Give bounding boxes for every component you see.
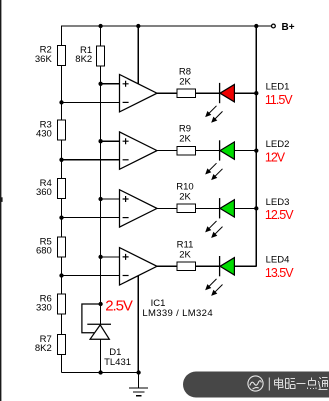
svg-text:36K: 36K [35, 54, 53, 65]
LED D1 LED1 [206, 83, 234, 122]
resistor R9 [177, 124, 196, 155]
wire: comparator V+ supply drop [137, 26, 139, 84]
wire: right B+ rail vertical [255, 26, 257, 266]
junction node (256,26) [254, 24, 258, 28]
resistor R5 [36, 236, 66, 257]
op-amp U1b comparator 2 [120, 132, 158, 169]
junction node (256,208) [254, 206, 258, 210]
svg-text:11.5V: 11.5V [265, 93, 293, 107]
wire: TL431 anode to ground rail [100, 339, 102, 372]
wire: inverting input row 2 [62, 159, 120, 161]
junction node (62,160) [59, 158, 63, 162]
wire: divider column segment 2 [61, 140, 63, 179]
page left border line [0, 0, 1, 401]
wire: bottom ground rail [62, 372, 139, 374]
wire: comparator 1 output to resistor [157, 92, 177, 94]
svg-text:LED3: LED3 [266, 197, 290, 208]
pin + non-inverting input marker [123, 138, 129, 144]
svg-text:2.5V: 2.5V [105, 297, 133, 314]
resistor R7 [35, 334, 66, 355]
svg-text:LED2: LED2 [266, 139, 290, 150]
svg-text:LED1: LED1 [266, 82, 290, 93]
svg-text:13.5V: 13.5V [265, 266, 294, 280]
wire: comparator 2 output to resistor [157, 150, 177, 152]
watermark banner 电路一点通 [183, 372, 329, 398]
op-amp U1a comparator 1 [120, 75, 158, 112]
LED D3 LED3 [206, 198, 234, 237]
pin - inverting input marker [123, 101, 129, 103]
resistor R1 [75, 45, 104, 66]
junction node (101,84) [98, 82, 102, 86]
svg-text:2K: 2K [179, 134, 191, 145]
junction node (256,93) [254, 91, 258, 95]
wire: inverting input row 4 [62, 275, 120, 277]
shunt reference D1 TL431 [82, 304, 111, 339]
wire: inverting input row 3 [62, 217, 120, 219]
junction node (101,304) [98, 302, 102, 306]
wire: divider column segment 4 [61, 257, 63, 294]
svg-text:2K: 2K [179, 76, 191, 87]
wire: non-inverting input row 3 [101, 198, 120, 200]
wire: B+ top rail [62, 25, 272, 27]
wire: reference column (2.5V net) [100, 66, 102, 324]
pin - inverting input marker [123, 217, 129, 219]
svg-text:2K: 2K [179, 192, 191, 203]
resistor R4 [36, 178, 66, 199]
pin + non-inverting input marker [123, 254, 129, 260]
ground symbol [129, 373, 148, 396]
svg-text:330: 330 [36, 303, 52, 314]
LED2 emission arrows [206, 163, 223, 179]
junction node (256,151) [254, 148, 258, 152]
wire: non-inverting input row 1 [101, 83, 120, 85]
wire: LED2 anode to rail [234, 150, 256, 152]
junction node (101,199) [98, 197, 102, 201]
svg-text:360: 360 [36, 187, 52, 198]
wire: comparator 3 output to resistor [157, 207, 177, 209]
wire: resistor to LED4 [196, 265, 221, 267]
watermark separator [268, 378, 270, 391]
junction node (62,102) [59, 100, 63, 104]
resistor R8 [177, 66, 196, 97]
wire: divider column top segment [61, 25, 63, 45]
wire: resistor to LED3 [196, 207, 221, 209]
svg-text:8K2: 8K2 [75, 54, 92, 65]
svg-text:8K2: 8K2 [35, 343, 52, 354]
watermark text 电路一点通 (simplified strokes) [275, 378, 328, 391]
svg-text:12.5V: 12.5V [265, 208, 294, 222]
resistor R10 [176, 182, 195, 213]
LED D2 LED2 [206, 140, 234, 179]
resistor R3 [36, 119, 66, 140]
junction node (101,257) [98, 255, 102, 259]
pin + non-inverting input marker [123, 81, 129, 87]
wire: divider column lower segment to bottom rail [61, 355, 63, 373]
resistor R6 [36, 293, 66, 314]
wire: comparator ground drop to bottom rail [137, 275, 139, 372]
wire: LED3 anode to rail [234, 207, 256, 209]
svg-text:12V: 12V [265, 150, 286, 164]
wire: resistor to LED2 [196, 150, 221, 152]
op-amp U1d comparator 4 [120, 248, 158, 285]
LED1 emission arrows [206, 106, 223, 122]
junction node (138,26) [136, 24, 140, 28]
svg-text:2K: 2K [179, 249, 191, 260]
LED4 emission arrows [206, 279, 223, 295]
wire: comparator 4 output to resistor [157, 265, 177, 267]
wire: divider column segment 3 [61, 199, 63, 238]
LED D4 LED4 [206, 256, 234, 295]
terminal B+ open circle [272, 24, 276, 28]
pin - inverting input marker [123, 159, 129, 161]
watermark logo circle [248, 376, 263, 391]
resistor R2 [35, 45, 66, 66]
wire: LED4 anode to rail [234, 265, 256, 267]
junction node (101,372) [98, 370, 102, 374]
pin + non-inverting input marker [123, 196, 129, 202]
wire: divider column segment 1 [61, 65, 63, 120]
pin - inverting input marker [123, 275, 129, 277]
wire: non-inverting input row 2 [101, 140, 120, 142]
wire: inverting input row 1 [62, 101, 120, 103]
wire: TL431 ref feedback bracket [82, 304, 101, 333]
svg-text:680: 680 [36, 246, 52, 257]
wire: divider column segment 5 [61, 314, 63, 335]
junction node (139,372) [136, 370, 140, 374]
junction node (62,276) [59, 273, 63, 277]
svg-text:LM339 / LM324: LM339 / LM324 [142, 308, 213, 319]
wire: LED1 anode to rail [234, 92, 256, 94]
svg-text:LED4: LED4 [266, 255, 290, 266]
resistor R11 [177, 239, 196, 270]
op-amp U1c comparator 3 [120, 190, 158, 227]
svg-text:B+: B+ [282, 22, 295, 33]
junction node (62,218) [59, 215, 63, 219]
svg-text:TL431: TL431 [104, 357, 131, 368]
wire: non-inverting input row 4 [101, 256, 120, 258]
junction node (101,141) [98, 139, 102, 143]
junction node (101,26) [98, 24, 102, 28]
wire: resistor to LED1 [196, 92, 221, 94]
svg-text:430: 430 [36, 129, 52, 140]
LED3 emission arrows [206, 221, 223, 237]
wire: reference column R1 drop from rail [100, 26, 102, 46]
